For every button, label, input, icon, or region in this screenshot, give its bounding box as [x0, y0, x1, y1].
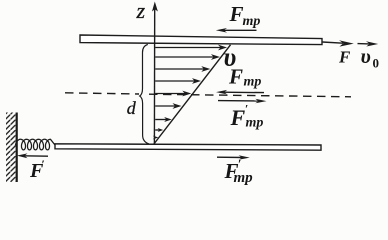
- velocity arrow 3: [155, 66, 210, 72]
- svg-text:F: F: [230, 105, 246, 130]
- z-axis (vertical, with arrowhead at top), continues as profile base line: [152, 2, 158, 144]
- svg-text:′: ′: [42, 157, 45, 171]
- svg-text:тр: тр: [244, 75, 262, 90]
- label F'_tr (bottom): [224, 157, 254, 187]
- svg-text:d: d: [127, 98, 137, 118]
- brace for gap d: [140, 44, 149, 143]
- svg-text:′: ′: [238, 157, 241, 171]
- friction arrow on upper layer (pointing left, above dashed line): [216, 90, 264, 95]
- friction arrow on bottom plate (pointing right): [217, 155, 250, 160]
- label v0: [361, 44, 380, 71]
- svg-text:тр: тр: [246, 116, 264, 131]
- svg-text:тр: тр: [234, 170, 254, 186]
- velocity arrow 5: [155, 91, 191, 97]
- dashed midline (left part): [65, 93, 139, 94]
- force arrow F (pulling top plate right): [323, 40, 354, 46]
- svg-text:тр: тр: [243, 14, 261, 29]
- spring connecting wall to bottom plate: [16, 139, 56, 150]
- svg-text:F: F: [228, 65, 243, 89]
- wall (hatched, left): [6, 113, 17, 183]
- friction arrow on top plate (pointing left): [216, 28, 257, 33]
- dashed midline (right part): [149, 94, 351, 97]
- velocity arrow 8: [155, 128, 163, 132]
- velocity arrow 9: [153, 136, 159, 140]
- velocity profile line (diagonal): [154, 45, 231, 145]
- velocity arrow 6: [155, 103, 181, 109]
- velocity arrow 4: [155, 78, 201, 84]
- friction arrow on lower layer (pointing right, below dashed line): [218, 99, 267, 104]
- velocity arrow 1: [155, 45, 227, 51]
- svg-text:z: z: [136, 0, 146, 23]
- label F': [29, 157, 45, 182]
- velocity arrow v0 of top plate: [358, 41, 379, 46]
- svg-text:′: ′: [245, 102, 248, 116]
- svg-text:F: F: [229, 2, 244, 26]
- label F_tr (top, friction on upper plate): [229, 2, 261, 29]
- velocity arrow 2: [155, 54, 220, 60]
- label F_tr (middle, friction on upper layer): [228, 65, 261, 90]
- force arrow F' (on wall, pointing left): [17, 153, 48, 158]
- velocity arrow 7: [155, 117, 172, 122]
- bottom plate: [55, 144, 321, 150]
- label F'_tr (middle, reaction friction on lower layer): [230, 102, 264, 131]
- top plate: [80, 35, 322, 45]
- svg-text:F: F: [338, 47, 351, 66]
- svg-text:0: 0: [373, 56, 380, 71]
- svg-text:υ: υ: [361, 44, 371, 68]
